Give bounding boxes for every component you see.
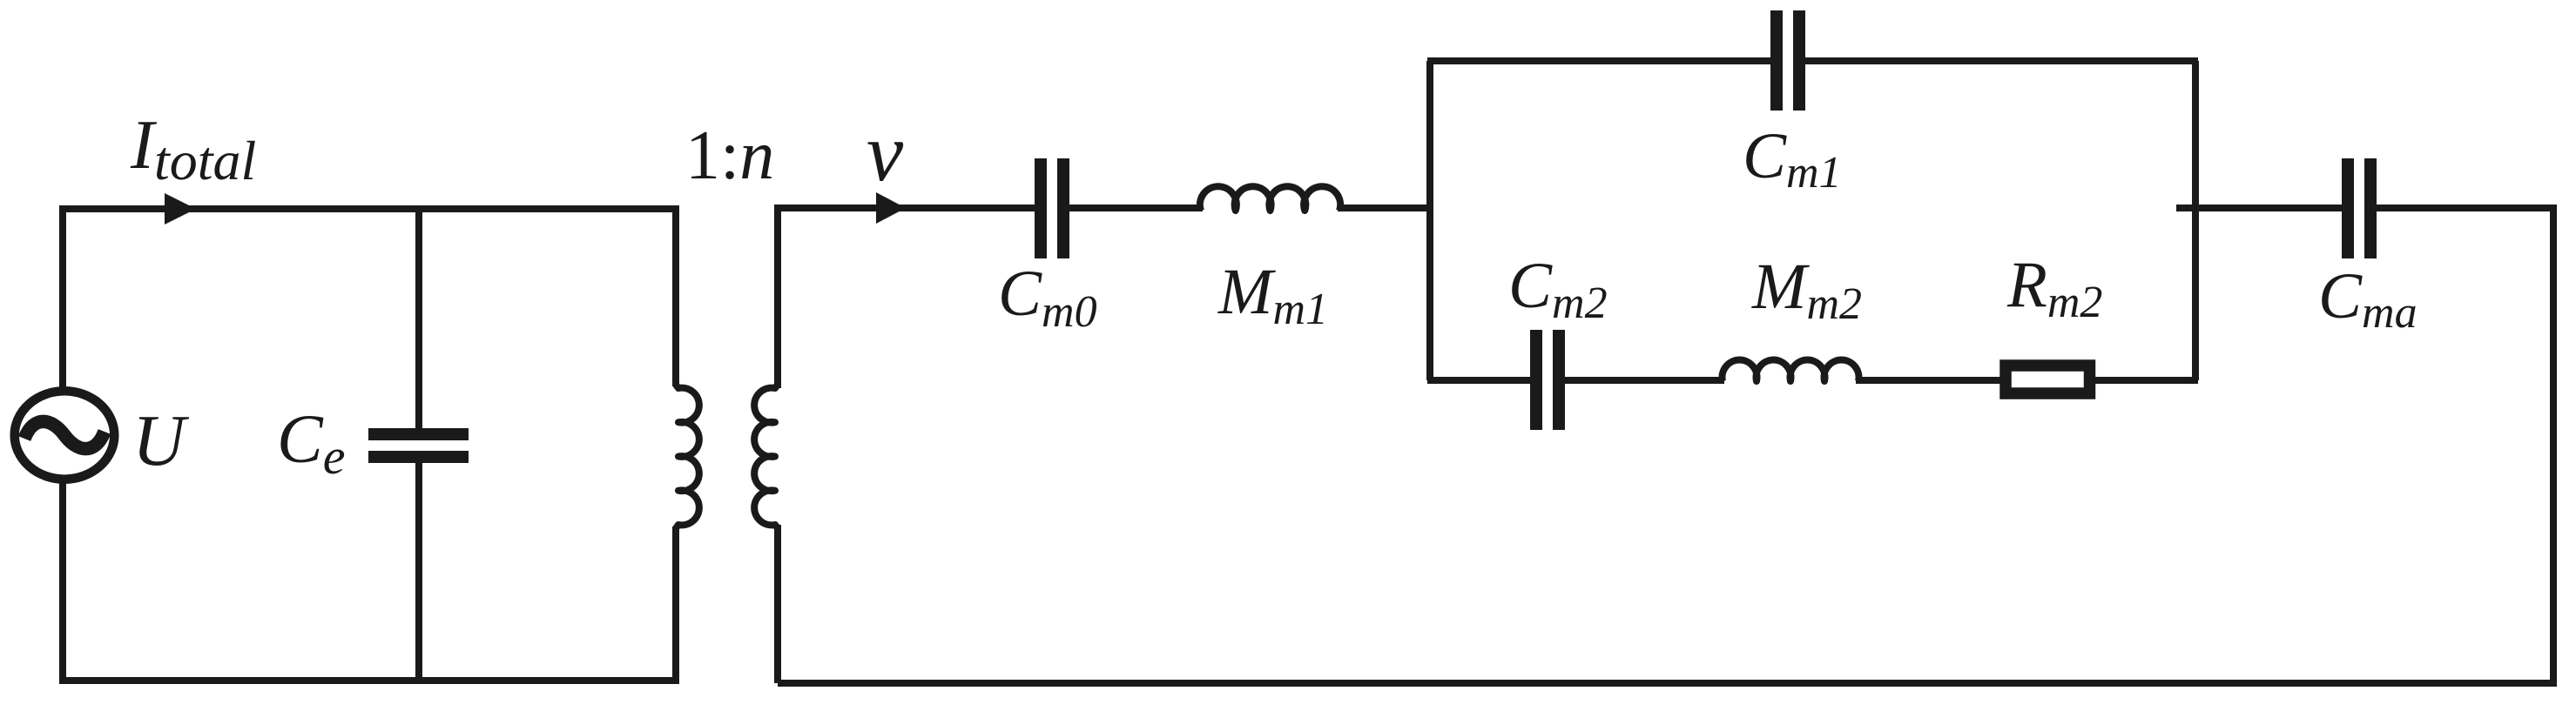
svg-text:1:n: 1:n [685,117,774,194]
svg-text:Cm0: Cm0 [998,258,1097,337]
svg-text:Rm2: Rm2 [2006,249,2102,327]
svg-text:Cma: Cma [2318,260,2418,338]
svg-text:Mm1: Mm1 [1217,256,1328,334]
svg-text:Cm2: Cm2 [1508,250,1608,328]
svg-text:U: U [132,400,190,481]
svg-text:Mm2: Mm2 [1751,251,1862,329]
svg-text:Cm1: Cm1 [1743,120,1842,198]
svg-text:Itotal: Itotal [130,105,256,191]
svg-text:v: v [867,106,904,198]
svg-text:Ce: Ce [277,402,345,485]
